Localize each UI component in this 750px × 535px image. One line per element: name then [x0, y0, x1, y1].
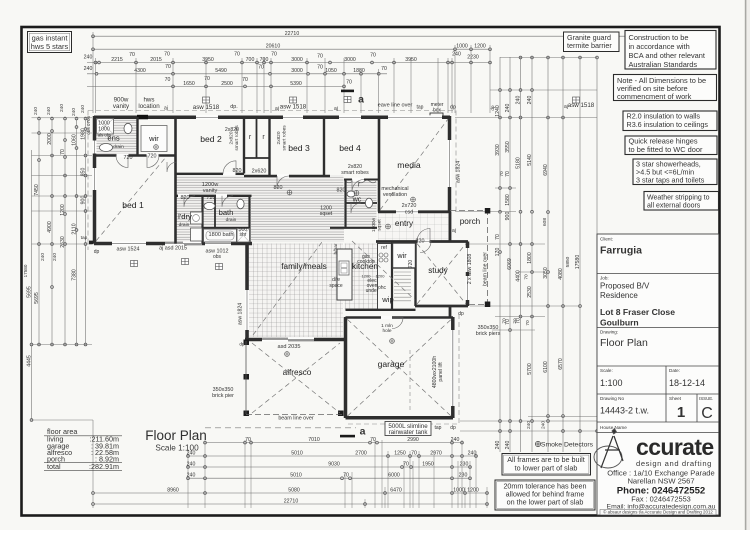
wall bath linen divider [214, 196, 216, 228]
svg-text:beam line over: beam line over [483, 252, 489, 286]
wall wc top [346, 202, 378, 204]
window left wall ens 0706 obs [93, 141, 97, 154]
svg-text:1050: 1050 [325, 68, 337, 74]
wall bed2 right [243, 117, 245, 174]
section marker a bottom [340, 435, 355, 438]
svg-text:70: 70 [513, 318, 519, 324]
windows top wall [196, 115, 218, 119]
svg-text:900: 900 [505, 212, 511, 221]
note box 3 star showerheads [633, 159, 717, 185]
svg-text:aj: aj [334, 106, 338, 112]
wall study right [466, 242, 470, 307]
svg-text:70: 70 [317, 65, 323, 71]
svg-text:5010: 5010 [290, 473, 302, 479]
svg-text:4445: 4445 [26, 355, 32, 367]
svg-text:8960: 8960 [167, 487, 179, 493]
svg-text:space: space [329, 283, 343, 289]
wall ens wir bottom [94, 154, 176, 157]
bath shower [237, 229, 250, 243]
dashed diagonal entry [352, 241, 415, 300]
dashed diagonal media [380, 119, 448, 210]
svg-text:tap: tap [81, 235, 88, 241]
floor hatch hall south [251, 196, 344, 243]
wip shelves [394, 272, 411, 301]
svg-text:6069: 6069 [507, 258, 513, 270]
svg-text:drain: drain [179, 222, 190, 228]
window glyphs top [203, 97, 210, 103]
copyright strip [600, 510, 716, 515]
note box weather stripping [644, 192, 719, 211]
svg-text:wc: wc [352, 195, 362, 204]
svg-text:3550: 3550 [505, 141, 511, 153]
window glyphs bottom wall [131, 261, 138, 267]
wall bath right [248, 196, 250, 244]
cooktop [379, 253, 388, 262]
svg-text:6100: 6100 [543, 361, 549, 373]
svg-text:608: 608 [542, 218, 548, 226]
svg-text:70: 70 [505, 171, 511, 177]
kitchen sink [339, 261, 349, 275]
svg-text:2000: 2000 [47, 133, 53, 145]
floor hatch bath ldry block [177, 197, 250, 243]
svg-text:720: 720 [408, 260, 414, 269]
svg-text:Farrugia: Farrugia [600, 245, 642, 257]
svg-text:csd: csd [405, 210, 413, 216]
door asd 2035 alfresco [262, 338, 314, 342]
svg-text:1:100: 1:100 [600, 378, 623, 388]
svg-text:sqset: sqset [377, 219, 383, 231]
floor tiles kitchen [345, 244, 392, 310]
svg-text:b/bar: b/bar [333, 243, 339, 254]
svg-text:asw 1518: asw 1518 [193, 104, 220, 111]
wall bed3 bottom [244, 175, 330, 177]
svg-text:2530: 2530 [527, 286, 533, 298]
svg-text:70: 70 [242, 77, 248, 83]
svg-text:obs: obs [86, 127, 91, 135]
ldry machine [191, 228, 203, 241]
svg-text:media: media [397, 160, 421, 170]
kitchen bench island [337, 249, 352, 300]
wall family bottom alfresco top [245, 338, 345, 342]
wall wir right bed2 left [174, 117, 177, 244]
svg-text:BCA and other relevant: BCA and other relevant [629, 51, 705, 60]
svg-text:6940: 6940 [543, 164, 549, 176]
svg-text:240: 240 [527, 96, 533, 105]
svg-text:6570: 6570 [558, 358, 564, 370]
svg-text:7380: 7380 [71, 269, 77, 281]
top dimension lines [93, 35, 712, 37]
svg-text:1950: 1950 [422, 461, 434, 467]
svg-text:termite barrier: termite barrier [567, 41, 612, 50]
svg-text:7010: 7010 [308, 437, 320, 443]
svg-text:sqset: sqset [320, 211, 333, 217]
svg-text:17580: 17580 [575, 255, 581, 270]
svg-text:Smoke Detectors: Smoke Detectors [541, 442, 594, 449]
svg-text:asd 2035: asd 2035 [277, 344, 300, 350]
svg-text:70: 70 [164, 52, 170, 58]
svg-text:1060: 1060 [71, 134, 77, 146]
svg-text:1200: 1200 [474, 44, 486, 50]
note box all frames [502, 454, 591, 476]
svg-text:240: 240 [526, 421, 532, 429]
svg-text:bed 3: bed 3 [288, 143, 310, 153]
svg-text:820: 820 [416, 239, 425, 245]
svg-text:240: 240 [505, 441, 511, 450]
garage panel lift dashed [409, 350, 411, 411]
alfresco beam dashed bottom [246, 414, 345, 416]
svg-text:5140: 5140 [527, 154, 533, 166]
svg-text:720: 720 [124, 155, 133, 161]
svg-text:5850: 5850 [565, 256, 571, 267]
svg-text:C: C [701, 405, 713, 422]
svg-text:70: 70 [370, 53, 376, 59]
wall left exterior [93, 116, 97, 244]
svg-text:4900: 4900 [47, 221, 53, 233]
svg-text:commencment of work: commencment of work [617, 92, 692, 101]
svg-text:dp: dp [450, 105, 456, 111]
svg-text:study: study [428, 266, 448, 275]
svg-text:2500: 2500 [221, 81, 233, 87]
rainwater tank box [385, 422, 431, 436]
svg-text:vanity: vanity [203, 188, 218, 194]
smoke detector legend [535, 441, 540, 446]
svg-text:1200: 1200 [376, 274, 386, 279]
svg-text:1240: 1240 [495, 105, 501, 117]
svg-text:wip: wip [381, 295, 393, 304]
wall corridor bottom bath top [176, 195, 252, 197]
svg-text:ref: ref [381, 245, 387, 251]
svg-text:240: 240 [495, 441, 501, 450]
svg-text:820: 820 [181, 195, 190, 201]
svg-text:vanity: vanity [113, 103, 130, 110]
svg-text:240: 240 [46, 107, 52, 115]
svg-text:230: 230 [460, 461, 469, 467]
svg-text:70: 70 [204, 76, 210, 82]
svg-text:als obs: als obs [98, 133, 111, 138]
svg-text:20610: 20610 [266, 44, 281, 50]
svg-text:shr: shr [240, 232, 247, 238]
svg-text:all external doors: all external doors [647, 203, 701, 210]
wc basin [347, 191, 355, 197]
svg-text:design and drafting: design and drafting [636, 459, 712, 468]
section marker a top [341, 90, 354, 93]
svg-text:ventilation: ventilation [383, 192, 407, 198]
svg-text:asw 1824: asw 1824 [456, 161, 462, 183]
windows study right 2x asw 1808 [466, 248, 470, 272]
svg-text:9030: 9030 [328, 461, 340, 467]
svg-text:on the lower part of slab: on the lower part of slab [507, 498, 584, 507]
svg-text:dp: dp [94, 249, 100, 255]
svg-text:5010: 5010 [291, 450, 303, 456]
svg-text:1200: 1200 [467, 487, 479, 493]
svg-text:Job:: Job: [600, 276, 609, 281]
wall kitchen wip divider [391, 242, 393, 311]
svg-text:aj: aj [452, 228, 456, 234]
hws marker on top wall [137, 115, 148, 120]
wall study step to garage [449, 306, 452, 317]
svg-text:240: 240 [515, 96, 521, 105]
floor hatch ens [96, 118, 137, 155]
svg-text:240: 240 [59, 104, 65, 112]
svg-text:bed 1: bed 1 [122, 200, 144, 210]
svg-text:1800w: 1800w [371, 217, 377, 232]
svg-text:70: 70 [381, 66, 387, 72]
svg-text:Floor Plan: Floor Plan [145, 428, 207, 443]
svg-text:Scale 1:100: Scale 1:100 [155, 444, 199, 453]
svg-text:tap: tap [435, 425, 442, 431]
wall family left [245, 244, 249, 340]
svg-text:70: 70 [524, 274, 530, 280]
svg-text:240: 240 [71, 108, 77, 116]
svg-text:70: 70 [343, 473, 349, 479]
svg-text:Drawing:: Drawing: [600, 330, 618, 335]
ens basin [100, 144, 113, 152]
note box insulation [623, 111, 717, 131]
svg-text:5080: 5080 [288, 487, 300, 493]
svg-text:dp: dp [450, 425, 456, 431]
window asw 1524 [112, 242, 146, 246]
dashed diagonal alfresco [252, 343, 340, 413]
door asd 2015 [165, 242, 202, 246]
svg-text:Lot 8 Fraser Close: Lot 8 Fraser Close [600, 307, 675, 317]
svg-text:2 x asw 1808: 2 x asw 1808 [467, 254, 473, 285]
wall wip bottom [346, 309, 416, 311]
floor tiles entry [378, 214, 449, 241]
svg-text:asw 1518: asw 1518 [280, 104, 307, 111]
wall media bottom [378, 210, 450, 213]
bath toilet [237, 199, 244, 209]
svg-text:l'dry: l'dry [178, 212, 192, 221]
dashed diagonal bed1 [96, 157, 166, 241]
svg-text:cooktop: cooktop [357, 259, 375, 265]
dashed diagonal garage [348, 320, 452, 417]
porch beam dashed [450, 211, 488, 305]
svg-text:17580: 17580 [23, 264, 28, 277]
window family asw 1824 [245, 290, 249, 330]
svg-text:22710: 22710 [285, 31, 300, 37]
svg-text:70: 70 [317, 54, 323, 60]
svg-text:© absaur designs t/a Accurate: © absaur designs t/a Accurate Design and… [603, 510, 713, 515]
svg-text:beam line over: beam line over [278, 416, 314, 422]
svg-text:brick piers: brick piers [476, 331, 501, 337]
wall bed4 bottom robes [344, 179, 379, 181]
svg-text:700: 700 [246, 57, 255, 63]
dashed diagonal study [417, 244, 466, 305]
svg-text:Scale:: Scale: [600, 368, 613, 373]
accurate logo compass icon [594, 429, 623, 469]
svg-text:Australian Standards: Australian Standards [629, 60, 698, 69]
svg-text:wir: wir [396, 251, 407, 260]
svg-text:1000: 1000 [456, 44, 468, 50]
svg-text:obs: obs [213, 254, 222, 260]
title block outer [597, 234, 719, 515]
svg-text:2970: 2970 [430, 450, 442, 456]
wall entry bottom study top [376, 240, 468, 243]
svg-text:panel lift: panel lift [438, 362, 444, 382]
svg-text:5695: 5695 [34, 292, 40, 304]
svg-text:1250: 1250 [394, 450, 406, 456]
svg-text:1000: 1000 [453, 487, 465, 493]
svg-text:70: 70 [60, 149, 66, 155]
svg-text:70: 70 [165, 77, 171, 83]
svg-text:to be fitted to WC door: to be fitted to WC door [629, 145, 703, 154]
svg-text:70: 70 [258, 65, 264, 71]
svg-text:dp.: dp. [230, 104, 238, 110]
svg-text:720: 720 [207, 195, 216, 201]
bottom dimension lines [205, 442, 462, 444]
wall study bottom [415, 305, 468, 308]
svg-text:3950: 3950 [202, 57, 214, 63]
svg-text:Drawing No: Drawing No [600, 396, 624, 401]
svg-text:2x820: 2x820 [229, 131, 235, 144]
smoke detectors on plan [287, 190, 292, 195]
svg-text:ISSUE.: ISSUE. [699, 396, 713, 401]
svg-text:hole: hole [382, 328, 391, 334]
svg-text:Construction to be: Construction to be [629, 33, 689, 42]
wall bath tub shelf [203, 227, 250, 229]
floor hatch corridor [177, 175, 344, 195]
svg-text:820: 820 [274, 185, 283, 191]
svg-text:2700: 2700 [355, 450, 367, 456]
svg-text:7450: 7450 [34, 184, 40, 196]
svg-text:5390: 5390 [290, 81, 302, 87]
svg-text:1580: 1580 [505, 194, 511, 206]
svg-text:brick pier: brick pier [212, 393, 234, 399]
svg-text:asw 1518: asw 1518 [568, 102, 595, 109]
wall wc bottom [330, 227, 377, 229]
svg-text:240: 240 [541, 421, 547, 429]
svg-text:240: 240 [33, 107, 39, 115]
svg-text:R3.6 insulation to ceilings: R3.6 insulation to ceilings [627, 120, 709, 129]
svg-text:2x720: 2x720 [402, 203, 417, 209]
svg-text:Residence: Residence [600, 291, 638, 300]
bath basin [204, 202, 215, 209]
wall ldry right [201, 196, 203, 244]
top dimension verticals [92, 32, 94, 113]
floor tiles family meals [249, 244, 344, 338]
porch piers [485, 208, 491, 214]
svg-text:a: a [358, 94, 364, 106]
svg-text:to lower part of slab: to lower part of slab [515, 463, 578, 472]
ens shower [97, 119, 114, 135]
svg-text:aj asd 2015: aj asd 2015 [159, 246, 187, 252]
note box 20mm tolerance [495, 480, 595, 510]
window media asw 1824 [448, 140, 452, 187]
svg-text:alfresco: alfresco [283, 368, 312, 377]
svg-text:1800 bath: 1800 bath [209, 232, 234, 238]
svg-text:Fax : 0246472553: Fax : 0246472553 [631, 495, 691, 504]
left dimension lines [31, 150, 33, 420]
floor area table [44, 435, 122, 437]
svg-text:eave line over: eave line over [378, 103, 413, 109]
svg-text:5490: 5490 [215, 68, 227, 74]
svg-text:Sheet: Sheet [669, 396, 682, 401]
svg-text:6000: 6000 [388, 473, 400, 479]
svg-text:Weather stripping to: Weather stripping to [647, 195, 710, 202]
eave line dashed outline [88, 111, 459, 425]
svg-text:drain: drain [113, 144, 124, 150]
svg-text:5700: 5700 [527, 363, 533, 375]
svg-text:tap: tap [417, 105, 424, 111]
wall bottom bed wing [94, 242, 252, 246]
svg-text:family/meals: family/meals [281, 262, 327, 271]
left dimension horizontals [32, 117, 93, 119]
svg-text:1: 1 [677, 404, 685, 421]
note box gas instant hws [28, 32, 72, 53]
svg-text:garage: garage [378, 359, 405, 369]
title block column dividers [665, 366, 667, 394]
floor hatch wc block [346, 180, 377, 227]
svg-text:2015: 2015 [150, 57, 162, 63]
wall entry right [449, 212, 452, 242]
svg-text:porch: porch [460, 217, 481, 226]
svg-text:location: location [138, 103, 160, 110]
svg-text:820: 820 [233, 168, 242, 174]
svg-text:240: 240 [84, 66, 93, 72]
wall wc block left [344, 180, 346, 229]
wall top exterior [94, 116, 450, 120]
svg-text:Proposed B/V: Proposed B/V [600, 282, 650, 291]
svg-text:aj: aj [275, 106, 279, 112]
svg-text:Floor Plan: Floor Plan [600, 337, 648, 349]
door gaps white [117, 154, 129, 158]
svg-text:4080: 4080 [558, 268, 564, 280]
svg-text:rainwater tank: rainwater tank [389, 429, 429, 436]
svg-text:smart robes: smart robes [234, 125, 240, 151]
svg-text:240: 240 [84, 55, 93, 61]
svg-text:total: total [47, 462, 61, 471]
svg-text:1650: 1650 [183, 81, 195, 87]
svg-text:70: 70 [525, 320, 531, 326]
svg-text:70: 70 [346, 80, 352, 86]
svg-text:6470: 6470 [390, 487, 402, 493]
door arcs [116, 156, 128, 168]
svg-text::282.91m: :282.91m [89, 462, 119, 471]
svg-text:3000: 3000 [344, 57, 356, 63]
garage walls [344, 317, 348, 418]
ens toilet [124, 123, 132, 133]
wall bed4 media divider [378, 117, 381, 212]
svg-text:70: 70 [499, 171, 505, 177]
wall bed2 bottom corridor top [176, 173, 245, 175]
note box construction BCA standards [625, 31, 716, 70]
note box dimensions verified on site [614, 75, 717, 101]
svg-text:ohc: ohc [378, 285, 387, 291]
svg-text:240: 240 [80, 105, 86, 113]
svg-text:a: a [360, 426, 366, 438]
svg-text:3000: 3000 [291, 68, 303, 74]
svg-text:ccurate: ccurate [636, 434, 714, 460]
svg-text:wir: wir [148, 134, 159, 143]
robe cells walls [256, 117, 258, 158]
svg-text:bed 2: bed 2 [200, 134, 222, 144]
alfresco piers and edges [244, 340, 250, 346]
svg-text:2990: 2990 [407, 437, 419, 443]
svg-text:bed 4: bed 4 [339, 143, 361, 153]
svg-text:3 star taps and toilets: 3 star taps and toilets [636, 176, 705, 185]
svg-text:240: 240 [452, 52, 461, 58]
dashed diagonal family [253, 242, 322, 335]
wc toilet [365, 198, 372, 208]
svg-text:5695: 5695 [26, 286, 32, 298]
svg-text:2215: 2215 [111, 57, 123, 63]
svg-text:70: 70 [271, 52, 277, 58]
svg-text:14443-2 t.w.: 14443-2 t.w. [600, 406, 649, 416]
svg-text:smart robes: smart robes [341, 170, 369, 176]
svg-text:240: 240 [40, 253, 46, 261]
svg-text:under: under [366, 288, 379, 294]
svg-text:2x820: 2x820 [276, 131, 282, 144]
